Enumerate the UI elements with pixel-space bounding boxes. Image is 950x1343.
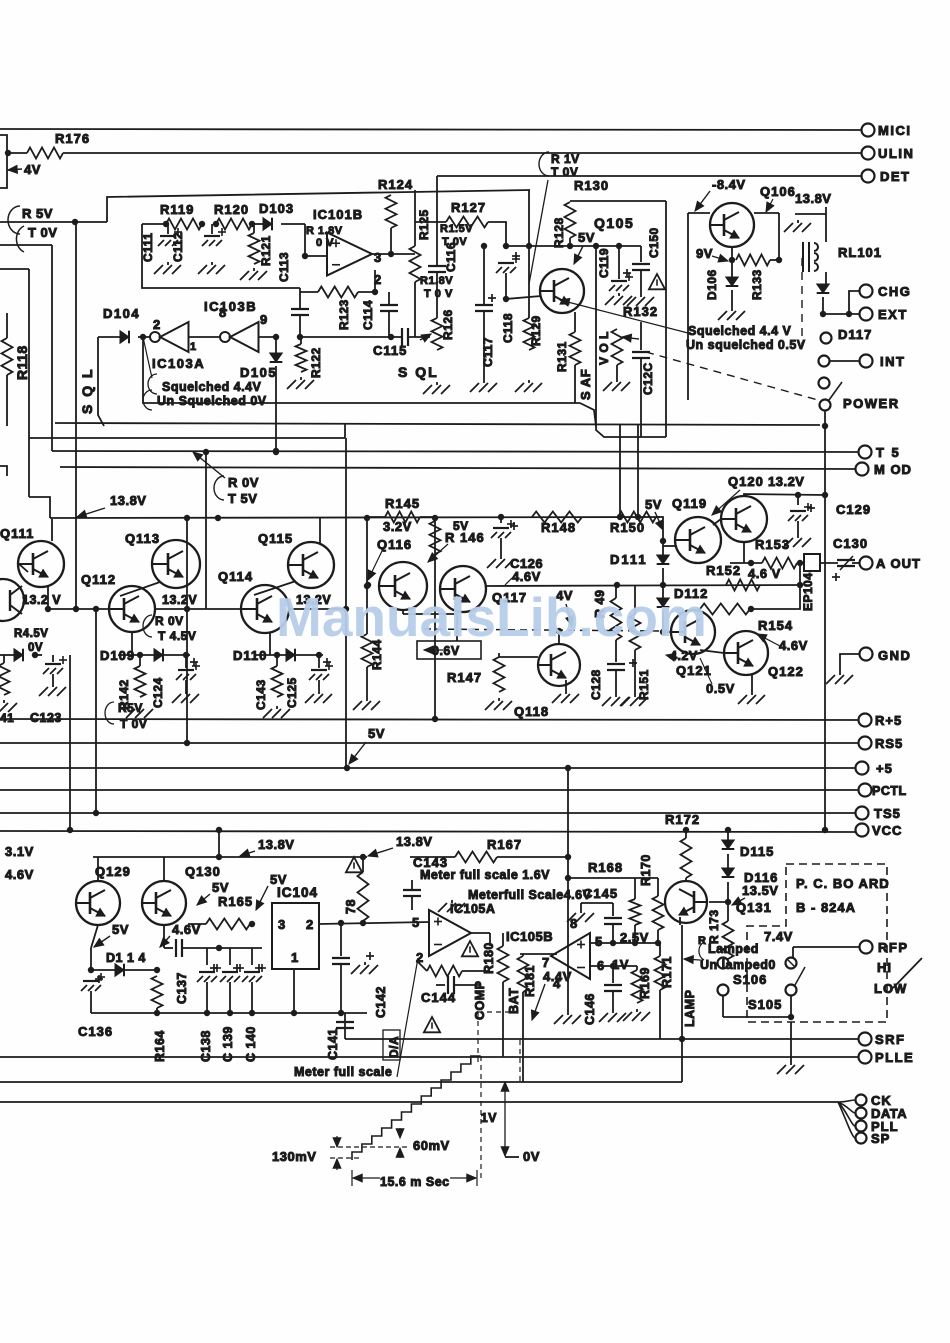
svg-text:M OD: M OD [874,462,912,477]
svg-text:R123: R123 [337,299,351,330]
svg-text:PLLE: PLLE [875,1050,914,1065]
label 13.2V [22,593,61,607]
staircase waveform [352,1056,481,1160]
svg-text:D104: D104 [103,306,140,321]
resistor R178 [358,872,369,921]
node [776,257,782,263]
svg-text:S105: S105 [748,997,782,1012]
switch S105 contact a [786,958,797,969]
svg-text:15.6 m Sec: 15.6 m Sec [380,1175,450,1189]
svg-text:Un squelched 0.5V: Un squelched 0.5V [686,338,806,352]
label 5V ic104 [270,872,287,887]
wire q118 collector [558,631,560,644]
svg-text:T 0V: T 0V [551,165,578,179]
transistor Q116 [379,562,427,610]
wire Q105 base [506,296,541,299]
svg-text:Q105: Q105 [594,215,634,231]
resistor R141 [3,655,5,663]
svg-text:4.6 V: 4.6 V [748,566,781,581]
svg-text:R118: R118 [14,345,30,380]
wire q115 q114 [254,581,296,595]
wire +5 line [0,767,855,769]
node [797,582,803,588]
wire RFP [793,946,859,948]
svg-text:C125: C125 [285,677,299,708]
terminal RFP [860,941,873,954]
relay RL101 coil [803,242,818,272]
svg-text:41: 41 [0,711,14,725]
wire RS5 line [0,742,858,744]
node [503,296,509,302]
wire CK trunk [0,1101,838,1103]
box -0.6V [417,641,481,659]
svg-text:R181: R181 [523,965,537,997]
IC IC104 box [272,903,319,969]
wire d114 row [91,969,157,971]
node rail [184,515,190,521]
wire ic104 pin1 [293,969,295,1013]
pin6 [597,958,605,973]
resistor R171 [659,943,661,956]
svg-text:C124: C124 [151,677,165,708]
label Un squelched 0.5V [686,338,806,352]
wire DET line [437,175,861,177]
label -8.4V [712,177,746,192]
svg-text:V O L: V O L [597,331,611,365]
label 130mV [272,1149,316,1164]
svg-text:T 4.5V: T 4.5V [158,629,196,643]
svg-text:0V: 0V [28,642,43,654]
svg-text:ULIN: ULIN [878,146,914,161]
transistor Q130 [163,857,165,881]
capacitor C139 [229,948,231,965]
svg-text:R151: R151 [637,669,651,700]
svg-text:R 1V: R 1V [551,152,580,166]
label D/A [387,1036,401,1058]
svg-text:Q106: Q106 [760,184,796,199]
svg-text:13.2V: 13.2V [162,593,197,607]
label Lamped [708,942,759,956]
svg-text:Q122: Q122 [768,664,804,679]
svg-text:P. C. BO ARD: P. C. BO ARD [796,876,890,891]
resistor R168 [634,878,636,899]
wire x206 drop [205,452,207,609]
op-amp IC105B [551,933,590,979]
svg-text:4.6V: 4.6V [512,569,541,584]
label BAT [507,988,521,1014]
wire squelch box [143,337,580,403]
resistor R167 [410,856,455,858]
wire emitters [402,610,404,614]
wire to opamp [305,224,327,256]
svg-text:R150: R150 [610,520,645,535]
pin5 [595,934,603,949]
resistor R125 [414,190,416,246]
transistor Q131 [665,881,707,923]
diode D105 [270,353,283,362]
diode D112 [662,585,664,598]
capacitor C114 [388,292,390,305]
capacitor C136 [95,975,103,983]
svg-text:5: 5 [412,915,420,930]
op-amp IC101B [327,233,372,276]
label 9V [696,246,713,261]
wire q121 base [663,631,671,633]
wire elbow to 13.8 rail [29,497,50,518]
node [216,945,222,951]
svg-text:R130: R130 [574,178,609,193]
svg-text:C137: C137 [175,972,189,1004]
node [797,560,803,566]
wire x435 [434,518,436,719]
wire vertical x76 [75,222,77,609]
node r167 [565,854,571,860]
svg-text:D110: D110 [233,648,267,663]
label 5V r150 [645,497,662,512]
resistor R165 [188,923,206,925]
wire q129 emitter [91,925,98,948]
svg-text:Q118: Q118 [514,704,549,719]
transistor Q122 [724,631,768,675]
label 5V q129 [112,922,129,937]
svg-text:R133: R133 [750,269,764,300]
wire vertical D105 [275,337,277,353]
svg-text:INT: INT [880,354,905,369]
svg-text:1: 1 [190,341,197,353]
svg-text:D103: D103 [259,201,294,216]
resistor R143 [276,655,278,666]
resistor R118 [6,313,8,338]
wire vertical x52 [51,245,53,451]
node [388,251,394,257]
label B-824A [796,900,856,915]
svg-text:7.4V: 7.4V [764,929,793,944]
terminal SRF [859,1033,872,1046]
svg-text:Squelched 4.4 V: Squelched 4.4 V [688,324,792,338]
capacitor C124 [185,655,187,668]
node [388,334,394,340]
node rail2 [154,1010,160,1016]
svg-text:R121: R121 [259,235,273,266]
node [822,423,828,429]
wire switch bottoms [722,995,724,1017]
label 13.2V b [162,593,197,607]
resistor R169 [636,966,638,970]
resistor R146 [434,517,436,521]
svg-text:Meterfull Scale4.6V: Meterfull Scale4.6V [468,888,592,902]
label COMP [473,981,487,1021]
svg-text:Q129: Q129 [95,864,131,879]
ground c143 [438,900,465,912]
wire x345 srf [344,1013,346,1039]
diode D106 zener [726,277,739,286]
wire T5 line [52,451,858,452]
svg-text:VCC: VCC [872,823,902,838]
svg-text:8: 8 [219,305,227,320]
wire x70 [69,655,71,830]
svg-text:4.4V: 4.4V [543,969,572,984]
wire SRF line [345,1038,858,1040]
terminal DET [862,170,875,183]
svg-text:S106: S106 [733,972,767,987]
svg-text:R147: R147 [447,670,482,685]
resistor R128 [565,202,576,238]
wire q121 emitter to q122 [700,650,724,653]
svg-text:3.1V: 3.1V [5,844,34,859]
transistor Q118 [538,644,580,686]
label 13.8V b1 [258,837,294,852]
svg-text:Q115: Q115 [258,531,293,546]
node T5 [203,449,209,455]
wire q106 right [754,212,779,214]
wire y438 [29,437,345,439]
pin 3 [374,250,382,265]
wire stub y269 [0,268,29,270]
switch lever [829,382,842,400]
terminal MOD [856,463,869,476]
svg-text:R126: R126 [441,309,455,340]
svg-text:60mV: 60mV [413,1138,450,1153]
diode D114 [115,964,124,977]
wire PLLE line [0,1056,858,1058]
terminal T5 [859,446,872,459]
label R130 [574,178,609,193]
resistor R127 [415,221,446,223]
label R 5V T 0V [22,206,53,221]
diode D117 [817,284,830,293]
svg-text:+5: +5 [876,761,893,776]
node [213,221,219,227]
wire y337 [300,336,391,338]
wire x568 down [567,857,569,1012]
node [660,538,666,544]
label 15.6mSec [380,1175,450,1189]
transistor left edge partial [0,579,24,621]
svg-text:B - 824A: B - 824A [796,900,856,915]
wire emitter [731,247,733,277]
terminal PCTL [859,784,872,797]
svg-text:R119: R119 [160,202,194,217]
wire IC103B out [258,336,276,338]
terminal TS5 [856,807,869,820]
node [72,219,78,225]
terminal AOUT [860,557,873,570]
resistor R142 [139,655,141,666]
diode D115 [727,830,729,840]
svg-text:0.5V: 0.5V [706,681,735,696]
label 4.6V c126 [512,569,541,584]
svg-text:D117: D117 [838,327,872,342]
svg-text:1V: 1V [481,1111,497,1125]
svg-text:R4.5V: R4.5V [14,628,48,640]
terminal R+5 [859,714,872,727]
wire box edge x666 [665,201,667,437]
label R1.5V T 0V [440,223,473,235]
capacitor C142 [340,923,342,956]
leader to Q105 base [529,180,548,284]
svg-text:S Q L: S Q L [79,367,95,414]
capacitor C138 [206,948,208,965]
svg-text:5V: 5V [578,230,595,245]
resistor R133 [736,255,770,266]
leader arrow T5 [193,452,225,478]
svg-text:R 5V: R 5V [22,206,53,221]
svg-text:POWER: POWER [843,396,900,411]
wire box left [142,224,300,288]
label 0V [505,1156,519,1158]
svg-text:9: 9 [260,312,268,327]
capacitor C120 [640,322,642,350]
svg-text:R131: R131 [555,341,569,372]
svg-text:RL101: RL101 [838,245,882,260]
resistor R173 [727,902,729,921]
svg-text:EXT: EXT [878,307,908,322]
label 13.2V c [296,593,331,607]
node [729,257,735,263]
resistor R164 [152,976,163,1008]
wire SQL hook [98,337,104,426]
svg-text:RFP: RFP [878,940,909,955]
diode D103 [252,223,263,225]
switch contact [821,333,832,344]
wire bat down [522,992,524,1082]
wire y246 [506,245,641,247]
svg-text:C129: C129 [836,502,871,517]
label R4.5V 0V [14,628,48,640]
ground c142 [366,952,374,960]
wire ULIN left segment [8,152,27,154]
svg-text:R122: R122 [309,347,323,378]
svg-text:T 0V: T 0V [28,225,57,240]
resistor R176 [27,148,63,159]
label 4V with arrow [8,165,22,173]
label Squelched 4.4V [162,380,262,394]
svg-text:HI: HI [877,960,892,975]
svg-text:13.8V: 13.8V [110,493,146,508]
wire rail corner [656,517,663,541]
wire d110 row [256,654,323,656]
svg-text:13.2V: 13.2V [768,474,804,489]
resistor R180 [502,933,504,946]
wire to AOUT [852,562,859,564]
resistor R150 [618,512,656,523]
pin7 [542,955,550,970]
diode D110 [286,649,295,662]
svg-text:R148: R148 [541,520,576,535]
svg-text:C118: C118 [501,313,515,343]
resistor R144 [362,634,373,667]
capacitor C119 [618,246,620,279]
transistor Q114 [241,585,289,633]
node [297,334,303,340]
svg-text:C117: C117 [481,337,495,367]
node [503,243,509,249]
switch S105 contact b [786,985,797,996]
svg-text:SP: SP [871,1131,890,1146]
svg-text:-8.4V: -8.4V [712,177,746,192]
inverter IC103B [220,322,259,352]
label meter full scale 1.6 [420,868,550,882]
svg-text:4.6V: 4.6V [779,638,808,653]
svg-text:4.6V: 4.6V [5,867,34,882]
resistor R123 [300,291,318,293]
capacitor C126 [500,517,502,523]
wire bottom rail [91,1012,367,1014]
svg-text:13.8V: 13.8V [396,834,432,849]
arrow 130 up [333,1136,341,1147]
wire q119 q120 [713,519,721,525]
label 1V [612,957,629,972]
wire EP104 out [820,562,838,564]
wire d109 row [118,654,190,656]
svg-text:C115: C115 [373,343,407,358]
svg-text:R5V: R5V [118,701,143,715]
box left edge connector [0,135,7,188]
svg-text:3.2V: 3.2V [383,519,412,534]
terminal PLLE [859,1051,872,1064]
wire DET drop [436,176,438,190]
svg-text:C114: C114 [361,300,375,330]
wire q118 emitter [565,680,567,691]
svg-text:C128: C128 [589,669,603,700]
diode D104 [98,336,120,338]
label 5V q130 [212,880,229,895]
wire pin5 [590,942,658,944]
svg-text:Q116: Q116 [377,537,412,552]
label R132 [623,304,658,319]
svg-text:R 173: R 173 [707,909,721,944]
wire x596 drop [596,246,666,437]
svg-text:Q121: Q121 [676,663,712,678]
svg-text:13.8V: 13.8V [795,191,831,206]
svg-text:BAT: BAT [507,988,521,1014]
wire q130 emitter [163,925,165,948]
wire y609 right [289,608,346,610]
svg-text:Q112: Q112 [81,572,116,587]
wire R130 rail [570,200,666,202]
wire vertical x29 [28,269,30,497]
svg-text:R145: R145 [385,496,420,511]
wire y423 [55,423,820,425]
node y878 [565,875,571,881]
svg-text:T 5: T 5 [876,445,901,460]
svg-text:IC104: IC104 [277,885,318,900]
label R1.8V 0V [306,225,343,237]
svg-text:C144: C144 [421,990,456,1005]
svg-text:Un lamped0: Un lamped0 [700,958,776,972]
svg-text:R171: R171 [660,956,674,988]
capacitor C117 [483,246,485,305]
label 5V r146 [453,519,469,533]
svg-text:D111: D111 [610,552,648,567]
svg-text:D109: D109 [100,648,135,663]
op-amp IC105A [429,910,471,956]
svg-text:Q131: Q131 [736,900,772,915]
svg-text:LAMP: LAMP [683,990,697,1027]
wire MOD line [60,467,855,469]
resistor R172 [685,830,687,838]
resistor R152 [726,580,760,591]
svg-text:13.5V: 13.5V [742,883,778,898]
svg-text:D115: D115 [740,844,774,859]
label 4V [556,588,573,603]
svg-text:D1 1 4: D1 1 4 [106,951,146,965]
node [273,334,279,340]
wire q119 base [663,545,675,547]
svg-text:SRF: SRF [875,1032,906,1047]
wire q121 collector [693,609,697,611]
wire INT [830,360,859,362]
